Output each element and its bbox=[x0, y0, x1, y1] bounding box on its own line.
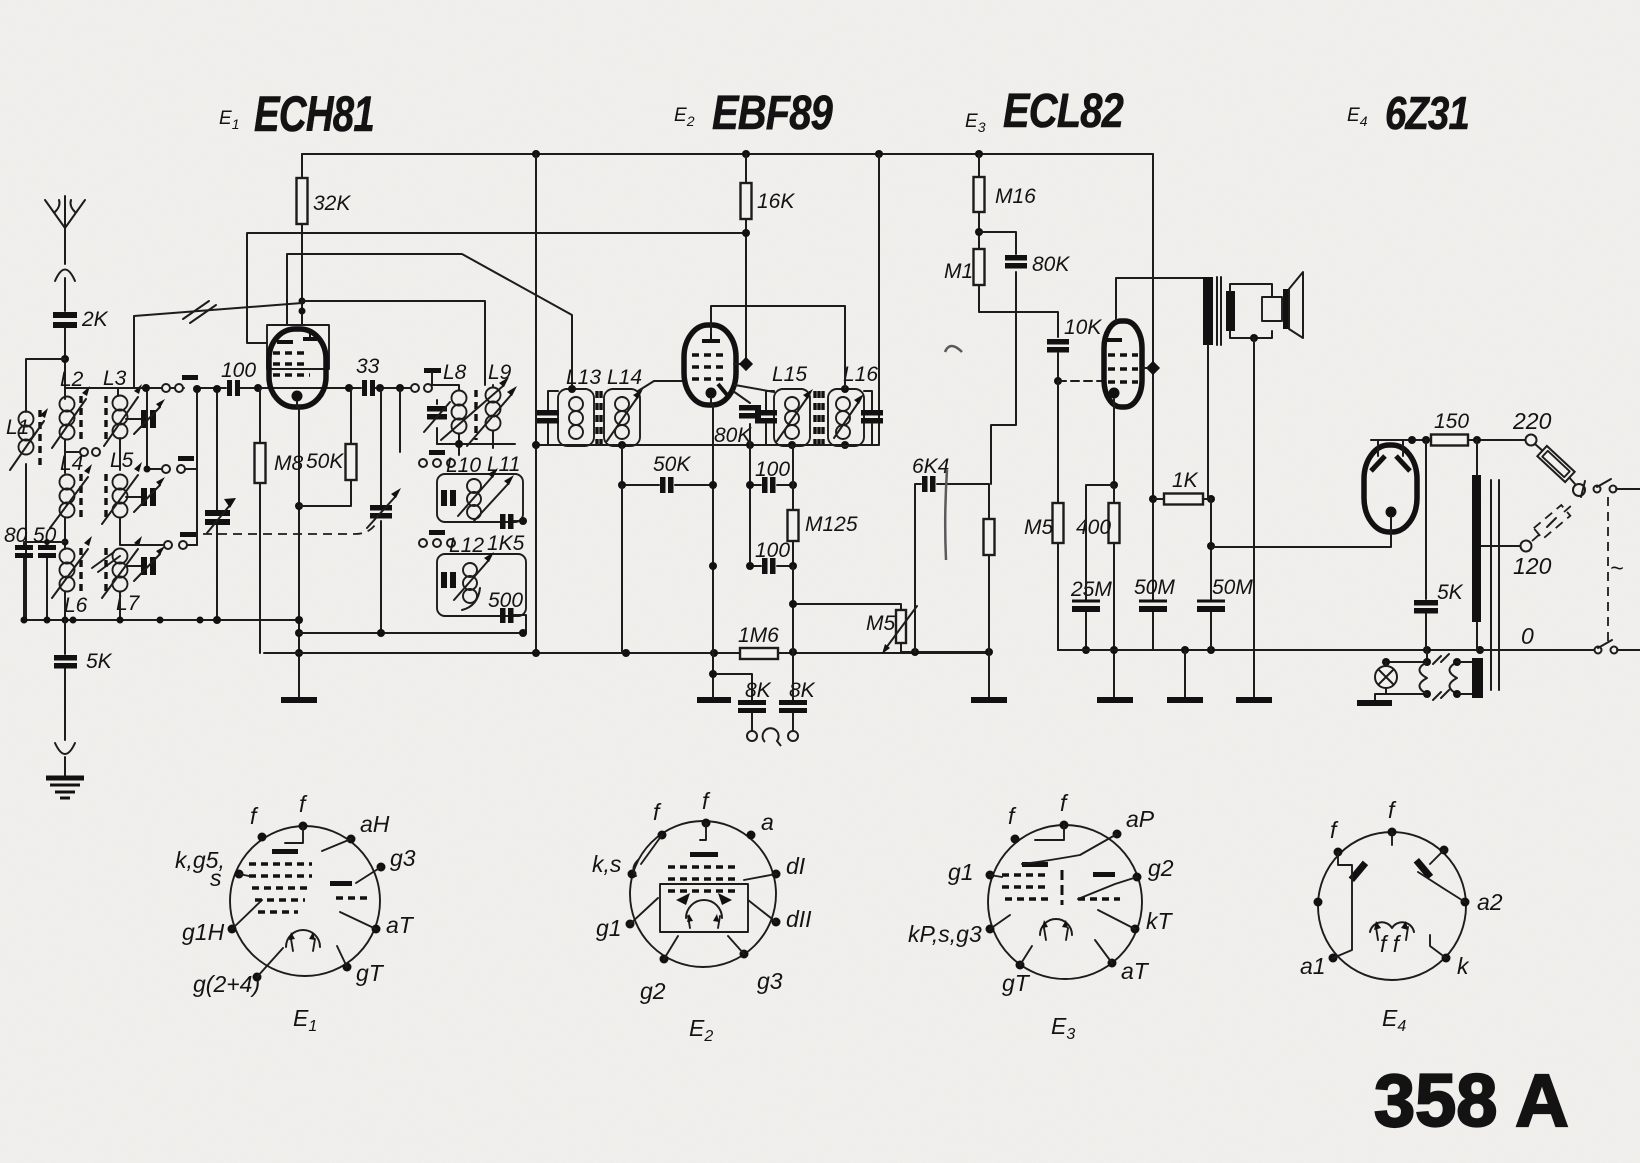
svg-text:f f: f f bbox=[1380, 931, 1402, 957]
switch mains upper bbox=[1581, 479, 1640, 497]
power transformer core bbox=[1491, 480, 1499, 690]
svg-text:ECH81: ECH81 bbox=[254, 86, 374, 142]
terminal 220 bbox=[1526, 435, 1537, 446]
heater winding 1 bbox=[1420, 662, 1428, 694]
terminal 120 bbox=[1521, 541, 1532, 552]
pin left bbox=[1314, 898, 1323, 907]
mechanical gang dashed link bbox=[203, 522, 377, 534]
svg-text:100: 100 bbox=[221, 359, 256, 382]
svg-text:kT: kT bbox=[1146, 908, 1174, 934]
coil box L16 bbox=[828, 389, 864, 446]
inductor L5 bbox=[102, 449, 142, 542]
svg-text:2K: 2K bbox=[81, 308, 109, 331]
ground earth symbol bbox=[46, 778, 84, 798]
svg-text:5K: 5K bbox=[86, 650, 113, 673]
pin g1 bbox=[986, 871, 995, 880]
svg-text:k,s: k,s bbox=[592, 851, 622, 877]
wire heater winding top bbox=[1386, 650, 1427, 694]
switch contact bar main line bbox=[182, 375, 198, 380]
wire bottom bus right bbox=[1058, 649, 1480, 651]
pin gT bbox=[1016, 961, 1025, 970]
svg-text:a: a bbox=[761, 809, 774, 835]
tube title E3 ECL82 bbox=[965, 85, 1124, 138]
node top bus junctions bbox=[532, 150, 540, 158]
node L13 top feed bbox=[568, 385, 576, 393]
winding break marks bbox=[1433, 654, 1449, 700]
terminals L12 row bbox=[419, 539, 427, 547]
inductor L4 bbox=[50, 452, 92, 549]
capacitor 8K left bbox=[738, 679, 772, 741]
svg-text:L6: L6 bbox=[64, 594, 88, 617]
pin k bbox=[1442, 954, 1451, 963]
core L15/L16 bbox=[815, 391, 823, 444]
svg-text:~: ~ bbox=[1610, 555, 1623, 581]
internal electrodes bbox=[690, 852, 718, 857]
pin a2 bbox=[1461, 898, 1470, 907]
ground 400 bbox=[1097, 697, 1133, 703]
wire band switch bbox=[134, 303, 302, 388]
ground pilot lamp bbox=[1357, 700, 1392, 706]
svg-text:g1H: g1H bbox=[182, 919, 225, 945]
svg-text:aT: aT bbox=[386, 912, 415, 938]
internal electrodes bbox=[1022, 862, 1048, 867]
core L13/L14 bbox=[597, 391, 601, 444]
pin f bbox=[702, 819, 711, 828]
trimmer capacitor L7 bbox=[126, 546, 165, 581]
svg-text:33: 33 bbox=[356, 355, 380, 378]
svg-text:a2: a2 bbox=[1477, 889, 1503, 915]
wire detector output to volume pot bbox=[793, 566, 899, 652]
inductor L8 bbox=[432, 361, 467, 444]
switch terminals main line bbox=[162, 384, 170, 392]
socket diagram E3 bbox=[908, 790, 1174, 1043]
svg-text:6K4: 6K4 bbox=[912, 455, 949, 478]
dashed switch link bbox=[1607, 497, 1609, 643]
scan artifact marks bbox=[945, 346, 962, 352]
pin gT bbox=[343, 963, 352, 972]
capacitor 80K IF bypass bbox=[714, 391, 761, 447]
coil box L10/L11 bbox=[437, 453, 523, 522]
pin g3 bbox=[740, 950, 749, 959]
capacitor 80K AF decoupling bbox=[979, 232, 1070, 484]
inductor L1 bbox=[6, 408, 48, 470]
svg-text:1M6: 1M6 bbox=[738, 624, 779, 647]
heater arcs bbox=[1370, 922, 1414, 932]
svg-text:L16: L16 bbox=[843, 363, 878, 386]
ground EBF89 cathode bbox=[712, 653, 714, 674]
capacitor 500 bbox=[488, 589, 527, 637]
wire L1 branch bbox=[26, 359, 65, 620]
pin g2 bbox=[660, 955, 669, 964]
wire ground bus left bbox=[26, 619, 299, 621]
svg-text:L8: L8 bbox=[443, 361, 467, 384]
svg-text:s: s bbox=[210, 865, 222, 891]
svg-text:kP,s,g3: kP,s,g3 bbox=[908, 921, 982, 947]
pin dII bbox=[772, 918, 781, 927]
resistor M5 grid leak bbox=[1024, 381, 1087, 650]
capacitor 50K detector bbox=[618, 445, 713, 493]
svg-text:g2: g2 bbox=[1148, 855, 1174, 881]
capacitor L15 primary bbox=[766, 391, 774, 445]
svg-text:50K: 50K bbox=[653, 453, 691, 476]
svg-text:gT: gT bbox=[1002, 970, 1031, 996]
resistor M125 bbox=[788, 445, 858, 604]
terminals main line to L8 bbox=[411, 384, 419, 392]
svg-text:1K: 1K bbox=[1172, 469, 1199, 492]
wire vertical B+ right of L16 bbox=[878, 154, 880, 444]
coil box L14 bbox=[604, 389, 640, 446]
resistor 1K screen bbox=[1153, 469, 1215, 505]
trimmer capacitor L3 bbox=[126, 399, 165, 434]
svg-text:L5: L5 bbox=[110, 449, 134, 472]
svg-text:25M: 25M bbox=[1070, 578, 1112, 601]
capacitor 100 upper bbox=[746, 445, 797, 566]
wire oscillator feedback y301 bbox=[302, 301, 485, 385]
inductor L9 bbox=[441, 361, 517, 446]
ground mid bus bbox=[1184, 650, 1186, 698]
pin a1 bbox=[1329, 954, 1338, 963]
wire EBF89 to L15 bbox=[735, 385, 774, 392]
pin kT bbox=[1131, 925, 1140, 934]
wire zero line bbox=[1480, 649, 1594, 651]
node L4 bottom bbox=[62, 539, 69, 546]
svg-text:L4: L4 bbox=[60, 452, 83, 475]
svg-text:a1: a1 bbox=[1300, 953, 1326, 979]
capacitor L13 primary bbox=[548, 391, 558, 445]
svg-text:358 A: 358 A bbox=[1374, 1059, 1569, 1142]
pin f bbox=[1334, 848, 1343, 857]
resistor M8 bbox=[255, 388, 304, 653]
heater winding 2 bbox=[1450, 662, 1458, 694]
wire speaker return ground bbox=[1253, 338, 1255, 698]
wire AVC line y233 bbox=[247, 233, 746, 343]
svg-text:50M: 50M bbox=[1212, 576, 1253, 599]
svg-text:EBF89: EBF89 bbox=[712, 87, 833, 140]
svg-text:dII: dII bbox=[786, 906, 812, 932]
capacitor 8K right bbox=[779, 652, 816, 741]
pin aP bbox=[1113, 830, 1122, 839]
svg-text:120: 120 bbox=[1513, 553, 1552, 579]
terminals L10 row bbox=[419, 459, 427, 467]
svg-text:8K: 8K bbox=[745, 679, 772, 702]
svg-text:gT: gT bbox=[356, 960, 385, 986]
svg-text:L3: L3 bbox=[103, 367, 127, 390]
wire EBF89 anode to L16 bbox=[711, 306, 845, 389]
resistor 50K osc grid bbox=[299, 388, 357, 506]
wire band tap vertical bbox=[196, 389, 198, 545]
switch terminals L2/L4 bbox=[80, 448, 88, 456]
pin aH bbox=[347, 835, 356, 844]
svg-text:M5: M5 bbox=[1024, 516, 1053, 539]
wire EBF89 cathode down bbox=[711, 398, 713, 674]
svg-text:dI: dI bbox=[786, 853, 806, 879]
svg-text:220: 220 bbox=[1512, 408, 1552, 434]
svg-text:aP: aP bbox=[1126, 806, 1155, 832]
coil box L15 bbox=[774, 389, 810, 446]
output transformer primary bbox=[1203, 277, 1213, 345]
pin g3 bbox=[377, 863, 386, 872]
svg-text:L14: L14 bbox=[607, 366, 642, 389]
wire ECL82 triode anode B+ bbox=[1152, 154, 1154, 650]
node 32K bottom bbox=[299, 298, 306, 305]
wire ECH81 cathode to ground bbox=[297, 401, 299, 698]
resistor 16K bbox=[741, 183, 796, 219]
svg-text:150: 150 bbox=[1434, 410, 1469, 433]
resistor grid leak ECL82 bbox=[984, 519, 995, 698]
tube ECL82 envelope bbox=[1104, 321, 1142, 407]
core L8/L9 bbox=[474, 390, 477, 440]
tube EBF89 envelope bbox=[684, 325, 736, 405]
wire long ground bus center bbox=[264, 652, 990, 654]
capacitor 6K4 coupling bbox=[912, 455, 989, 652]
svg-text:g3: g3 bbox=[390, 845, 416, 871]
resistor M1 bbox=[944, 249, 1058, 337]
internal wires bbox=[1333, 832, 1465, 958]
wire oscillator box bottom bbox=[299, 632, 526, 634]
internal electrodes bbox=[272, 849, 298, 854]
node L16 top bbox=[841, 385, 849, 393]
pilot lamp bbox=[1375, 662, 1397, 701]
svg-text:L15: L15 bbox=[772, 363, 807, 386]
trimmer capacitor L5 bbox=[126, 477, 165, 512]
svg-text:M5: M5 bbox=[866, 612, 895, 635]
capacitor 80 bbox=[4, 524, 65, 620]
ground M5/6K4 bbox=[971, 697, 1007, 703]
svg-text:g1: g1 bbox=[596, 915, 622, 941]
coil box L12 bbox=[437, 534, 526, 616]
wire main grid line bbox=[65, 388, 411, 392]
antenna bbox=[45, 196, 85, 311]
ground ECH81 cathode bbox=[281, 697, 317, 703]
svg-text:M1: M1 bbox=[944, 260, 973, 283]
tube ECH81 envelope bbox=[267, 325, 329, 407]
pin top right bbox=[1440, 846, 1449, 855]
capacitor 33 bbox=[356, 355, 380, 396]
svg-text:5K: 5K bbox=[1437, 581, 1464, 604]
socket diagram E4 bbox=[1300, 797, 1503, 1035]
pin aT bbox=[372, 925, 381, 934]
resistor 1M6 bbox=[738, 624, 779, 659]
pin g(2+4) bbox=[253, 973, 262, 982]
speaker voice coil bbox=[1262, 297, 1282, 321]
svg-text:M16: M16 bbox=[995, 185, 1036, 208]
wire hexode anode to L13 bbox=[287, 254, 572, 388]
svg-text:M125: M125 bbox=[805, 513, 858, 536]
wire 6Z31 cathode B+ bbox=[1211, 517, 1391, 547]
resistor 32K bbox=[297, 178, 308, 224]
svg-text:500: 500 bbox=[488, 589, 523, 612]
svg-text:M8: M8 bbox=[274, 452, 303, 475]
wire OPT secondary to speaker bbox=[1230, 284, 1272, 338]
pin aT bbox=[1108, 959, 1117, 968]
IF transformer L15/L16 bbox=[755, 363, 883, 446]
svg-text:k: k bbox=[1457, 953, 1470, 979]
capacitor 25M cathode bypass bbox=[1070, 485, 1114, 654]
wire L14 bottom to bus bbox=[621, 485, 623, 653]
svg-text:g3: g3 bbox=[757, 968, 783, 994]
heater core bar bbox=[1472, 658, 1483, 698]
svg-text:10K: 10K bbox=[1064, 316, 1102, 339]
variable capacitor antenna tuning bbox=[216, 389, 218, 620]
svg-text:50M: 50M bbox=[1134, 576, 1175, 599]
capacitor 10K grid bbox=[1047, 316, 1104, 385]
svg-text:g1: g1 bbox=[948, 859, 974, 885]
svg-text:1K5: 1K5 bbox=[487, 532, 525, 555]
power transformer primary winding bbox=[1472, 475, 1481, 622]
svg-text:6Z31: 6Z31 bbox=[1385, 87, 1469, 139]
wire 16K feed bbox=[734, 154, 746, 364]
pickup jack symbol bbox=[763, 728, 781, 746]
wire 6Z31 anodes to mains bbox=[1371, 440, 1431, 456]
variable capacitor oscillator tuning bbox=[367, 388, 401, 633]
svg-text:50K: 50K bbox=[306, 450, 344, 473]
capacitor 50 bbox=[33, 524, 57, 620]
svg-text:g2: g2 bbox=[640, 978, 666, 1004]
pin dI bbox=[772, 870, 781, 879]
switch contact marks bbox=[183, 301, 216, 323]
pin a bbox=[747, 831, 756, 840]
wire IF bottom rail bbox=[536, 444, 879, 446]
capacitor 1K5 bbox=[487, 514, 527, 555]
resistor M16 bbox=[974, 154, 1037, 249]
capacitor 100 grid bbox=[221, 359, 256, 396]
pin kP,s,g3 bbox=[986, 925, 995, 934]
wire 32K feed bbox=[301, 154, 303, 325]
svg-text:aT: aT bbox=[1121, 958, 1150, 984]
socket diagram E1 bbox=[175, 791, 416, 1035]
inductor L6 bbox=[52, 536, 92, 620]
output transformer secondary bbox=[1226, 291, 1235, 331]
coil box L13 bbox=[558, 389, 594, 446]
capacitor padder small above L8 bbox=[424, 368, 441, 373]
pin g2 bbox=[1133, 873, 1142, 882]
capacitor 50M right bbox=[1197, 499, 1253, 650]
wire ECL82 cathode bbox=[1113, 399, 1115, 485]
fuse 120 dashed bbox=[1532, 505, 1572, 541]
svg-text:400: 400 bbox=[1076, 516, 1111, 539]
pin f bbox=[299, 822, 308, 831]
inductor L2 bbox=[52, 368, 90, 473]
node mains selector bbox=[1573, 484, 1585, 496]
IF transformer L13/L14 bbox=[537, 366, 686, 446]
tube title E1 ECH81 bbox=[219, 86, 374, 142]
svg-text:16K: 16K bbox=[757, 190, 795, 213]
pin f bbox=[1388, 828, 1397, 837]
tube title E4 6Z31 bbox=[1347, 87, 1469, 139]
switch mains lower bbox=[1595, 640, 1640, 654]
pin k,s bbox=[628, 870, 637, 879]
capacitor L16 secondary bbox=[864, 391, 872, 445]
svg-text:ECL82: ECL82 bbox=[1003, 85, 1124, 138]
heater arcs bbox=[686, 900, 722, 918]
internal anode plates bbox=[1349, 861, 1369, 882]
wire stub osc grid down bbox=[399, 388, 401, 452]
tube title E2 EBF89 bbox=[674, 87, 833, 140]
svg-text:g(2+4): g(2+4) bbox=[193, 971, 260, 997]
pin f bbox=[1011, 835, 1020, 844]
potentiometer M5 volume bbox=[866, 604, 993, 656]
variable capacitor osc trimmer bbox=[424, 400, 450, 444]
socket diagram E2 bbox=[592, 788, 812, 1045]
svg-text:80K: 80K bbox=[714, 424, 752, 447]
wire L14 to EBF89 grid bbox=[638, 381, 686, 391]
heater arcs bbox=[1040, 919, 1072, 935]
speaker bbox=[1283, 272, 1303, 338]
resistor 150 bbox=[1431, 410, 1526, 446]
capacitor 5K mains bbox=[1414, 440, 1464, 650]
tube 6Z31 rectifier envelope bbox=[1364, 445, 1417, 532]
capacitor 2K bbox=[53, 308, 109, 392]
wire ECL82 pentode anode to OPT bbox=[1116, 278, 1204, 321]
switch terminals band tap lower bbox=[164, 541, 172, 549]
pin f bbox=[1060, 821, 1069, 830]
capacitor 100 lower bbox=[746, 539, 797, 574]
pin f bbox=[658, 831, 667, 840]
inductor L7 bbox=[102, 536, 142, 620]
fuse 220 bbox=[1535, 444, 1575, 484]
wire HT supply top bus bbox=[302, 153, 1153, 155]
inductor L3 bbox=[103, 367, 142, 470]
wire vertical B+ to IF bottom rail bbox=[535, 154, 537, 652]
output transformer core bbox=[1217, 277, 1221, 345]
svg-text:32K: 32K bbox=[313, 192, 351, 215]
svg-text:aH: aH bbox=[360, 811, 390, 837]
svg-text:0: 0 bbox=[1521, 623, 1534, 649]
pin f bbox=[258, 833, 267, 842]
heater arcs bbox=[286, 930, 320, 947]
svg-text:80K: 80K bbox=[1032, 253, 1070, 276]
resistor 400 cathode bbox=[1076, 485, 1120, 698]
wire earth arc bbox=[55, 743, 75, 776]
capacitor 5K antenna bbox=[54, 620, 113, 740]
pin k,g5,s bbox=[235, 870, 244, 879]
switch terminals L3/L5 bbox=[162, 465, 170, 473]
pin g1H bbox=[228, 925, 237, 934]
wire OPT primary bottom to B+ bbox=[1208, 345, 1211, 499]
wire L8/L9 bottom bbox=[437, 444, 515, 455]
capacitor 50M left bbox=[1134, 576, 1175, 612]
svg-text:L9: L9 bbox=[488, 361, 512, 384]
pin g1 bbox=[626, 920, 635, 929]
switch contact between L5/L7 bbox=[92, 552, 120, 572]
